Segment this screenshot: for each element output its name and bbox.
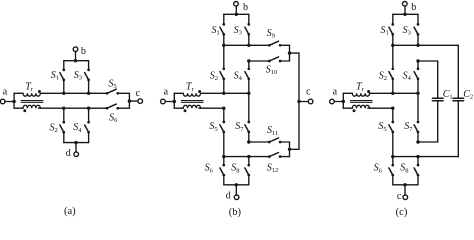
wire upper mid rail (figure a) bbox=[41, 92, 107, 95]
terminal a (figure c) bbox=[330, 87, 338, 104]
wire bar joining S11 and S12 (figure b) bbox=[288, 142, 291, 157]
svg-text:S11: S11 bbox=[267, 125, 278, 137]
junction dot left column transformer top rail (figure b) bbox=[222, 92, 225, 95]
junction dot left column on S12 rail (figure b) bbox=[222, 155, 225, 158]
switch S4 (figure c) bbox=[414, 61, 419, 93]
junction dot bottom rail (figure b) bbox=[235, 183, 238, 186]
transformer Tr left bar wire bbox=[13, 93, 15, 108]
svg-text:S3: S3 bbox=[403, 25, 411, 37]
svg-text:S4: S4 bbox=[73, 122, 82, 134]
wire from terminal b to top rail (figure c) bbox=[404, 6, 406, 14]
svg-text:C2: C2 bbox=[463, 89, 473, 101]
svg-text:(c): (c) bbox=[396, 207, 408, 218]
terminal a (figure b) bbox=[161, 87, 169, 104]
junction dot middle column transformer top rail (figure c) bbox=[416, 92, 419, 95]
transformer Tr core lines bbox=[21, 100, 43, 102]
switch S5 (figure c) bbox=[389, 108, 394, 156]
junction dot left column transformer top rail (figure c) bbox=[391, 92, 394, 95]
switch S3 (figure b) bbox=[245, 14, 250, 45]
junction dot left column transformer bottom wire (figure b) bbox=[222, 107, 225, 110]
switch S4 (figure a) bbox=[85, 108, 90, 142]
transformer Tr secondary winding (bottom) bbox=[343, 105, 369, 108]
junction dot left column lower rail (figure a) bbox=[62, 107, 65, 110]
svg-text:S1: S1 bbox=[381, 25, 389, 37]
terminal c (figure b) bbox=[299, 87, 313, 104]
junction dot middle column upper rail (figure a) bbox=[87, 92, 90, 95]
junction dot top rail (figure b) bbox=[235, 13, 238, 16]
svg-text:b: b bbox=[411, 2, 416, 13]
switch S6 (figure b) bbox=[220, 157, 225, 185]
transformer Tr secondary winding (bottom) bbox=[14, 105, 40, 108]
wire rail to capacitor C1 top (figure c) bbox=[416, 59, 437, 62]
wire lower mid rail (figure a) bbox=[39, 107, 107, 110]
wire from terminal a to transformer (figure b) bbox=[165, 101, 174, 103]
svg-text:S9: S9 bbox=[267, 28, 275, 40]
switch S4 (figure b) bbox=[245, 61, 250, 93]
wire from terminal a to transformer (figure a) bbox=[5, 101, 14, 103]
wire rail to capacitor C2 top (figure c) bbox=[391, 44, 458, 47]
switch S10 (figure b) bbox=[268, 57, 290, 62]
transformer Tr primary winding (top) bbox=[174, 93, 200, 96]
svg-text:S1: S1 bbox=[51, 70, 59, 82]
switch S7 (figure c) bbox=[414, 93, 419, 142]
switch S1 (figure b) bbox=[220, 14, 225, 45]
junction dot middle column lower rail (figure a) bbox=[87, 107, 90, 110]
switch S2 (figure a) bbox=[60, 108, 65, 142]
junction dot middle column on C1 top rail (figure c) bbox=[416, 59, 419, 62]
junction dot left column transformer bottom wire (figure c) bbox=[391, 107, 394, 110]
transformer Tr secondary winding (bottom) bbox=[174, 105, 200, 108]
wire transformer top rail (figure c) bbox=[370, 92, 420, 95]
svg-text:S8: S8 bbox=[400, 163, 408, 175]
svg-text:S5: S5 bbox=[209, 121, 217, 133]
terminal b (figure a) bbox=[73, 46, 86, 57]
switch S5 (figure a) bbox=[106, 89, 130, 94]
capacitor C2 (figure c) bbox=[453, 45, 464, 156]
svg-text:(b): (b) bbox=[229, 207, 242, 218]
junction dot left column on C2 bottom rail (figure c) bbox=[391, 155, 394, 158]
junction dot at node a / Tr bbox=[12, 100, 15, 103]
terminal c (figure c) bbox=[397, 185, 408, 202]
junction dot middle column on S12 rail (figure b) bbox=[247, 155, 250, 158]
wire bar joining S9 and S10 (figure b) bbox=[288, 45, 291, 61]
svg-text:S1: S1 bbox=[212, 25, 220, 37]
wire bottom rail (figure a) bbox=[64, 141, 89, 144]
junction dot at node a / Tr bbox=[342, 100, 345, 103]
switch S1 (figure c) bbox=[389, 14, 394, 45]
junction dot middle column on S10 rail (figure b) bbox=[247, 59, 250, 62]
transformer Tr polarity dot (bottom winding) bbox=[23, 109, 26, 112]
wire rail to capacitor C1 bottom (figure c) bbox=[416, 140, 437, 143]
svg-text:Tr: Tr bbox=[186, 81, 195, 93]
junction dot top rail (figure c) bbox=[403, 13, 406, 16]
transformer Tr core lines bbox=[181, 100, 203, 102]
svg-text:S3: S3 bbox=[234, 25, 242, 37]
transformer Tr (figure c) bbox=[342, 81, 373, 112]
junction dot middle column on C2 bottom rail (figure c) bbox=[416, 155, 419, 158]
junction dot middle column on C1 bottom rail (figure c) bbox=[416, 140, 419, 143]
junction dot bottom rail (figure c) bbox=[403, 183, 406, 186]
transformer Tr primary winding (top) bbox=[343, 93, 369, 96]
svg-text:S4: S4 bbox=[234, 70, 243, 82]
junction dot middle column transformer top rail (figure b) bbox=[247, 92, 250, 95]
wire rail to S12 (figure b) bbox=[222, 155, 269, 158]
switch S6 (figure c) bbox=[389, 157, 394, 185]
terminal a (figure a) bbox=[0, 87, 7, 104]
switch S11 (figure b) bbox=[268, 138, 290, 143]
svg-text:S4: S4 bbox=[403, 70, 412, 82]
switch S8 (figure b) bbox=[245, 157, 250, 185]
transformer Tr primary winding (top) bbox=[14, 93, 40, 96]
svg-text:S12: S12 bbox=[267, 162, 279, 174]
transformer Tr polarity dot (top winding) bbox=[367, 90, 370, 93]
switch S2 (figure b) bbox=[220, 45, 225, 93]
junction dot middle column on S9 rail (figure b) bbox=[247, 44, 250, 47]
wire transformer bottom to left column (figure c) bbox=[368, 107, 395, 110]
transformer Tr polarity dot (top winding) bbox=[38, 90, 41, 93]
switch S1 (figure a) bbox=[60, 61, 65, 94]
transformer Tr (figure a) bbox=[12, 81, 43, 112]
switch S6 (figure a) bbox=[106, 104, 130, 109]
junction dot node c bar (figure a) bbox=[128, 99, 131, 102]
wire rail to capacitor C2 bottom (figure c) bbox=[391, 155, 458, 158]
switch S8 (figure c) bbox=[414, 157, 419, 185]
wire from terminal b to top rail (figure a) bbox=[75, 52, 77, 61]
svg-text:S6: S6 bbox=[205, 163, 214, 175]
svg-text:Tr: Tr bbox=[25, 81, 34, 93]
svg-text:a: a bbox=[3, 87, 8, 98]
transformer Tr core lines bbox=[350, 100, 372, 102]
wire bottom rail (figure c) bbox=[393, 183, 418, 186]
junction dot bottom rail (figure a) bbox=[74, 141, 77, 144]
transformer Tr polarity dot (top winding) bbox=[198, 90, 201, 93]
wire rail to S9 (figure b) bbox=[222, 44, 269, 47]
terminal b (figure b) bbox=[234, 2, 248, 14]
svg-text:C1: C1 bbox=[443, 89, 453, 101]
svg-text:(a): (a) bbox=[64, 206, 76, 217]
switch S12 (figure b) bbox=[268, 153, 290, 158]
junction dot left column on C2 top rail (figure c) bbox=[391, 44, 394, 47]
svg-text:S3: S3 bbox=[74, 70, 82, 82]
junction dot at node a / Tr bbox=[173, 100, 176, 103]
terminal b (figure c) bbox=[403, 2, 417, 14]
svg-text:S2: S2 bbox=[50, 123, 58, 135]
svg-text:S6: S6 bbox=[374, 163, 383, 175]
wire bottom rail (figure b) bbox=[224, 183, 249, 186]
svg-text:d: d bbox=[226, 191, 231, 202]
capacitor C1 (figure c) bbox=[432, 61, 443, 142]
wire right bus to node c (figure b) bbox=[290, 53, 300, 149]
wire rail to S10 (figure b) bbox=[247, 59, 269, 62]
junction dot left column on S9 rail (figure b) bbox=[222, 44, 225, 47]
wire top rail (figure a) bbox=[64, 59, 89, 62]
wire right bar joining S5 and S6 (figure a) bbox=[128, 93, 131, 108]
wire top rail (figure b) bbox=[224, 13, 249, 16]
wire from terminal b to top rail (figure b) bbox=[235, 6, 237, 14]
svg-text:c: c bbox=[397, 191, 402, 202]
switch S5 (figure b) bbox=[220, 108, 225, 156]
switch S2 (figure c) bbox=[389, 45, 394, 93]
switch S3 (figure c) bbox=[414, 14, 419, 45]
svg-text:S10: S10 bbox=[266, 64, 278, 76]
transformer Tr (figure b) bbox=[173, 81, 204, 112]
svg-text:b: b bbox=[81, 46, 86, 57]
wire top rail (figure c) bbox=[393, 13, 418, 16]
svg-text:S8: S8 bbox=[231, 163, 239, 175]
svg-text:a: a bbox=[164, 87, 169, 98]
wire from terminal a to transformer (figure c) bbox=[334, 101, 343, 103]
svg-text:Tr: Tr bbox=[356, 81, 365, 93]
svg-text:S5: S5 bbox=[108, 78, 116, 90]
transformer Tr polarity dot (bottom winding) bbox=[353, 109, 356, 112]
svg-text:c: c bbox=[135, 88, 140, 99]
svg-text:c: c bbox=[306, 87, 311, 98]
transformer Tr polarity dot (bottom winding) bbox=[184, 109, 187, 112]
svg-text:S2: S2 bbox=[210, 70, 218, 82]
switch S7 (figure b) bbox=[245, 93, 250, 142]
svg-text:b: b bbox=[243, 2, 248, 13]
svg-text:S6: S6 bbox=[109, 112, 118, 124]
wire rail to S11 (figure b) bbox=[247, 140, 269, 143]
terminal c (figure a) bbox=[129, 88, 142, 104]
svg-text:d: d bbox=[66, 148, 71, 159]
svg-text:S5: S5 bbox=[378, 121, 386, 133]
svg-text:S2: S2 bbox=[379, 70, 387, 82]
junction dot node c on bus (figure b) bbox=[297, 100, 300, 103]
switch S3 (figure a) bbox=[85, 61, 90, 94]
junction dot top tap (figure b) bbox=[288, 51, 291, 54]
junction dot left column upper rail (figure a) bbox=[62, 92, 65, 95]
wire transformer bottom to left column (figure b) bbox=[199, 107, 226, 110]
terminal d (figure a) bbox=[66, 143, 79, 159]
transformer Tr left bar wire bbox=[173, 93, 175, 108]
switch S9 (figure b) bbox=[268, 41, 290, 46]
transformer Tr left bar wire bbox=[342, 93, 344, 108]
junction dot middle column on S11 rail (figure b) bbox=[247, 140, 250, 143]
svg-text:S7: S7 bbox=[404, 121, 413, 133]
junction dot middle column on C2 top rail (figure c) bbox=[416, 44, 419, 47]
svg-text:a: a bbox=[333, 87, 338, 98]
wire transformer top rail (figure b) bbox=[201, 92, 251, 95]
svg-text:S7: S7 bbox=[235, 121, 244, 133]
terminal d (figure b) bbox=[226, 185, 239, 202]
junction dot bottom tap (figure b) bbox=[288, 148, 291, 151]
junction dot top rail (figure a) bbox=[74, 59, 77, 62]
